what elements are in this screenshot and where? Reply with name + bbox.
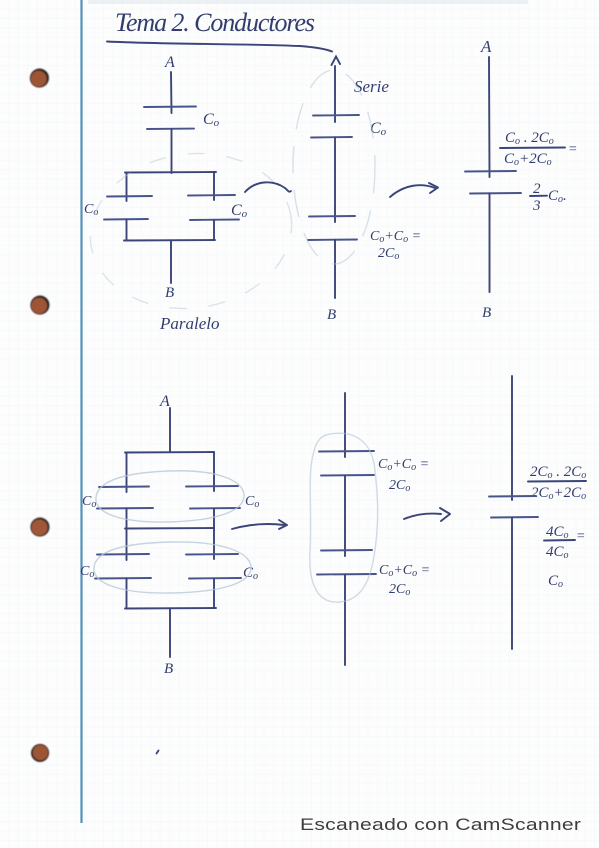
capacitor 2C0 (series bottom): [308, 216, 357, 240]
svg-text:Co+2Co: Co+2Co: [504, 151, 552, 168]
left branch wire down: [126, 173, 128, 202]
stray ink dot: [157, 751, 159, 754]
faint cloud around series circuit: [293, 70, 375, 264]
value label C0+C0 = 2C0 (bottom): [379, 563, 430, 598]
wire to node B: [170, 241, 172, 284]
wire A to block: [169, 408, 171, 452]
margin rule line: [80, 0, 82, 823]
value label C0+C0 = 2C0: [370, 229, 421, 262]
svg-text:Serie: Serie: [354, 77, 389, 96]
svg-text:Co.: Co.: [548, 188, 567, 205]
right wire row2 to bottom bar: [213, 579, 215, 609]
title underline / lead-in stroke to series circuit: [107, 42, 332, 52]
value label 2/3 C0: [530, 181, 567, 214]
svg-text:A: A: [480, 37, 492, 56]
top edge scan smudge: [88, 0, 528, 4]
svg-text:Co . 2Co: Co . 2Co: [505, 130, 554, 147]
parallel block bottom bar: [124, 239, 215, 242]
svg-text:B: B: [164, 661, 173, 677]
svg-text:A: A: [164, 54, 175, 71]
wire between capacitors: [334, 138, 336, 223]
capacitor C0 (row1 right): [186, 486, 240, 509]
capacitor C0 (row2 left): [95, 554, 151, 579]
capacitor equivalent 2/3 C0: [465, 171, 521, 194]
wire to node B: [489, 194, 491, 293]
left branch wire to bottom bar: [126, 220, 128, 241]
svg-text:B: B: [327, 307, 336, 323]
CamScanner watermark: [300, 816, 582, 835]
punch hole 2: [31, 296, 50, 315]
svg-text:3: 3: [532, 198, 541, 214]
block top bar: [125, 451, 214, 454]
dashed cloud around parallel block: [80, 141, 301, 322]
value label C0+C0 = 2C0 (top): [378, 457, 429, 494]
svg-text:2: 2: [533, 181, 541, 197]
cloud around circuit: [310, 433, 378, 602]
capacitor C0 (row1 left): [97, 487, 153, 509]
cloud around row2: [94, 542, 251, 593]
capacitor C0 (row2 right): [186, 554, 241, 579]
equation (2C0 . 2C0)/(2C0+2C0): [528, 464, 586, 502]
right wire row1 to middle bar: [213, 509, 215, 529]
svg-text:Co+Co =: Co+Co =: [378, 457, 429, 473]
arrow to equivalent circuit: [390, 183, 438, 197]
svg-text:Tema 2. Conductores: Tema 2. Conductores: [115, 8, 315, 37]
left wire row2 to bottom bar: [126, 579, 128, 609]
svg-text:Paralelo: Paralelo: [159, 314, 220, 333]
wire bottom: [344, 575, 346, 666]
wire A to capacitor: [488, 57, 491, 177]
wire top to 2C0: [344, 393, 346, 457]
capacitor equivalent C0: [489, 496, 538, 518]
svg-text:B: B: [165, 285, 174, 301]
right branch wire down: [213, 173, 215, 201]
svg-text:Co+Co =: Co+Co =: [370, 229, 421, 245]
capacitor C0 (series top): [311, 115, 359, 138]
capacitor 2C0 (top): [319, 451, 374, 476]
svg-text:B: B: [482, 305, 491, 321]
arrow to bottom-right circuit: [404, 508, 450, 521]
capacitor C0 (parallel, right branch): [188, 195, 239, 220]
wire top: [511, 376, 513, 500]
punch hole 1: [30, 69, 49, 88]
capacitor C0 (parallel, left branch): [104, 196, 152, 220]
svg-text:Co+Co =: Co+Co =: [379, 563, 430, 579]
value label 4C0/4C0 =: [544, 524, 585, 561]
left wire to row1: [126, 453, 128, 493]
punch hole 3: [31, 518, 50, 537]
wire A to C0: [334, 66, 336, 122]
parallel block top bar: [125, 171, 216, 174]
left wire to row2: [126, 529, 128, 561]
left wire row1 to middle bar: [126, 509, 128, 529]
right branch wire to bottom bar: [213, 220, 215, 240]
wire C0 to parallel block: [171, 129, 173, 173]
svg-text:=: =: [576, 529, 585, 544]
capacitor 2C0 (bottom): [317, 550, 376, 575]
block bottom bar: [125, 607, 216, 610]
node A (small caret): [332, 57, 341, 66]
svg-text:2Co+2Co: 2Co+2Co: [531, 485, 586, 502]
arrow to bottom-middle circuit: [232, 520, 287, 529]
svg-text:Escaneado con CamScanner: Escaneado con CamScanner: [300, 816, 582, 835]
capacitor C0 (series, top-left): [144, 107, 196, 130]
arrow to series circuit: [245, 182, 291, 192]
right wire to row1: [213, 453, 215, 492]
svg-text:=: =: [568, 142, 577, 157]
right wire to row2: [213, 529, 215, 560]
cloud around row1: [96, 471, 244, 522]
wire to node B: [334, 240, 336, 298]
svg-text:A: A: [159, 393, 170, 410]
punch hole 4: [31, 744, 49, 762]
wire between capacitors: [344, 476, 346, 557]
wire A to C0: [170, 72, 173, 113]
wire to node B: [169, 609, 171, 658]
svg-text:2Co . 2Co: 2Co . 2Co: [530, 464, 586, 481]
equation (C0 . 2C0)/(C0 + 2C0) =: [500, 130, 577, 168]
middle bar: [125, 527, 214, 530]
wire bottom: [511, 518, 513, 650]
